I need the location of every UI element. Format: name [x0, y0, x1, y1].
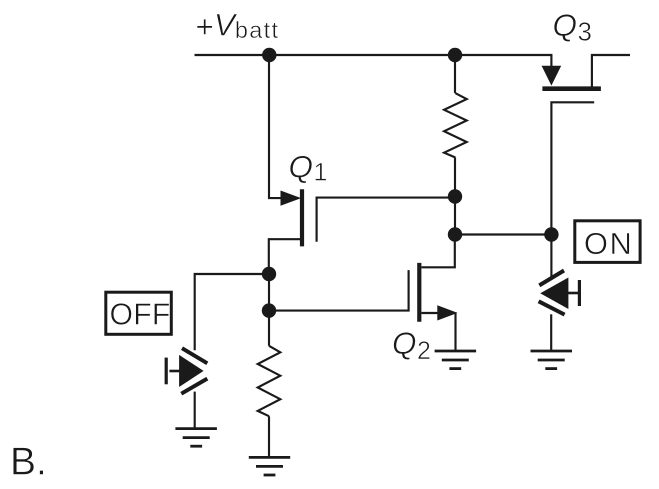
svg-text:ON: ON	[584, 226, 634, 261]
svg-text:OFF: OFF	[110, 298, 171, 331]
svg-text:B.: B.	[10, 440, 47, 483]
